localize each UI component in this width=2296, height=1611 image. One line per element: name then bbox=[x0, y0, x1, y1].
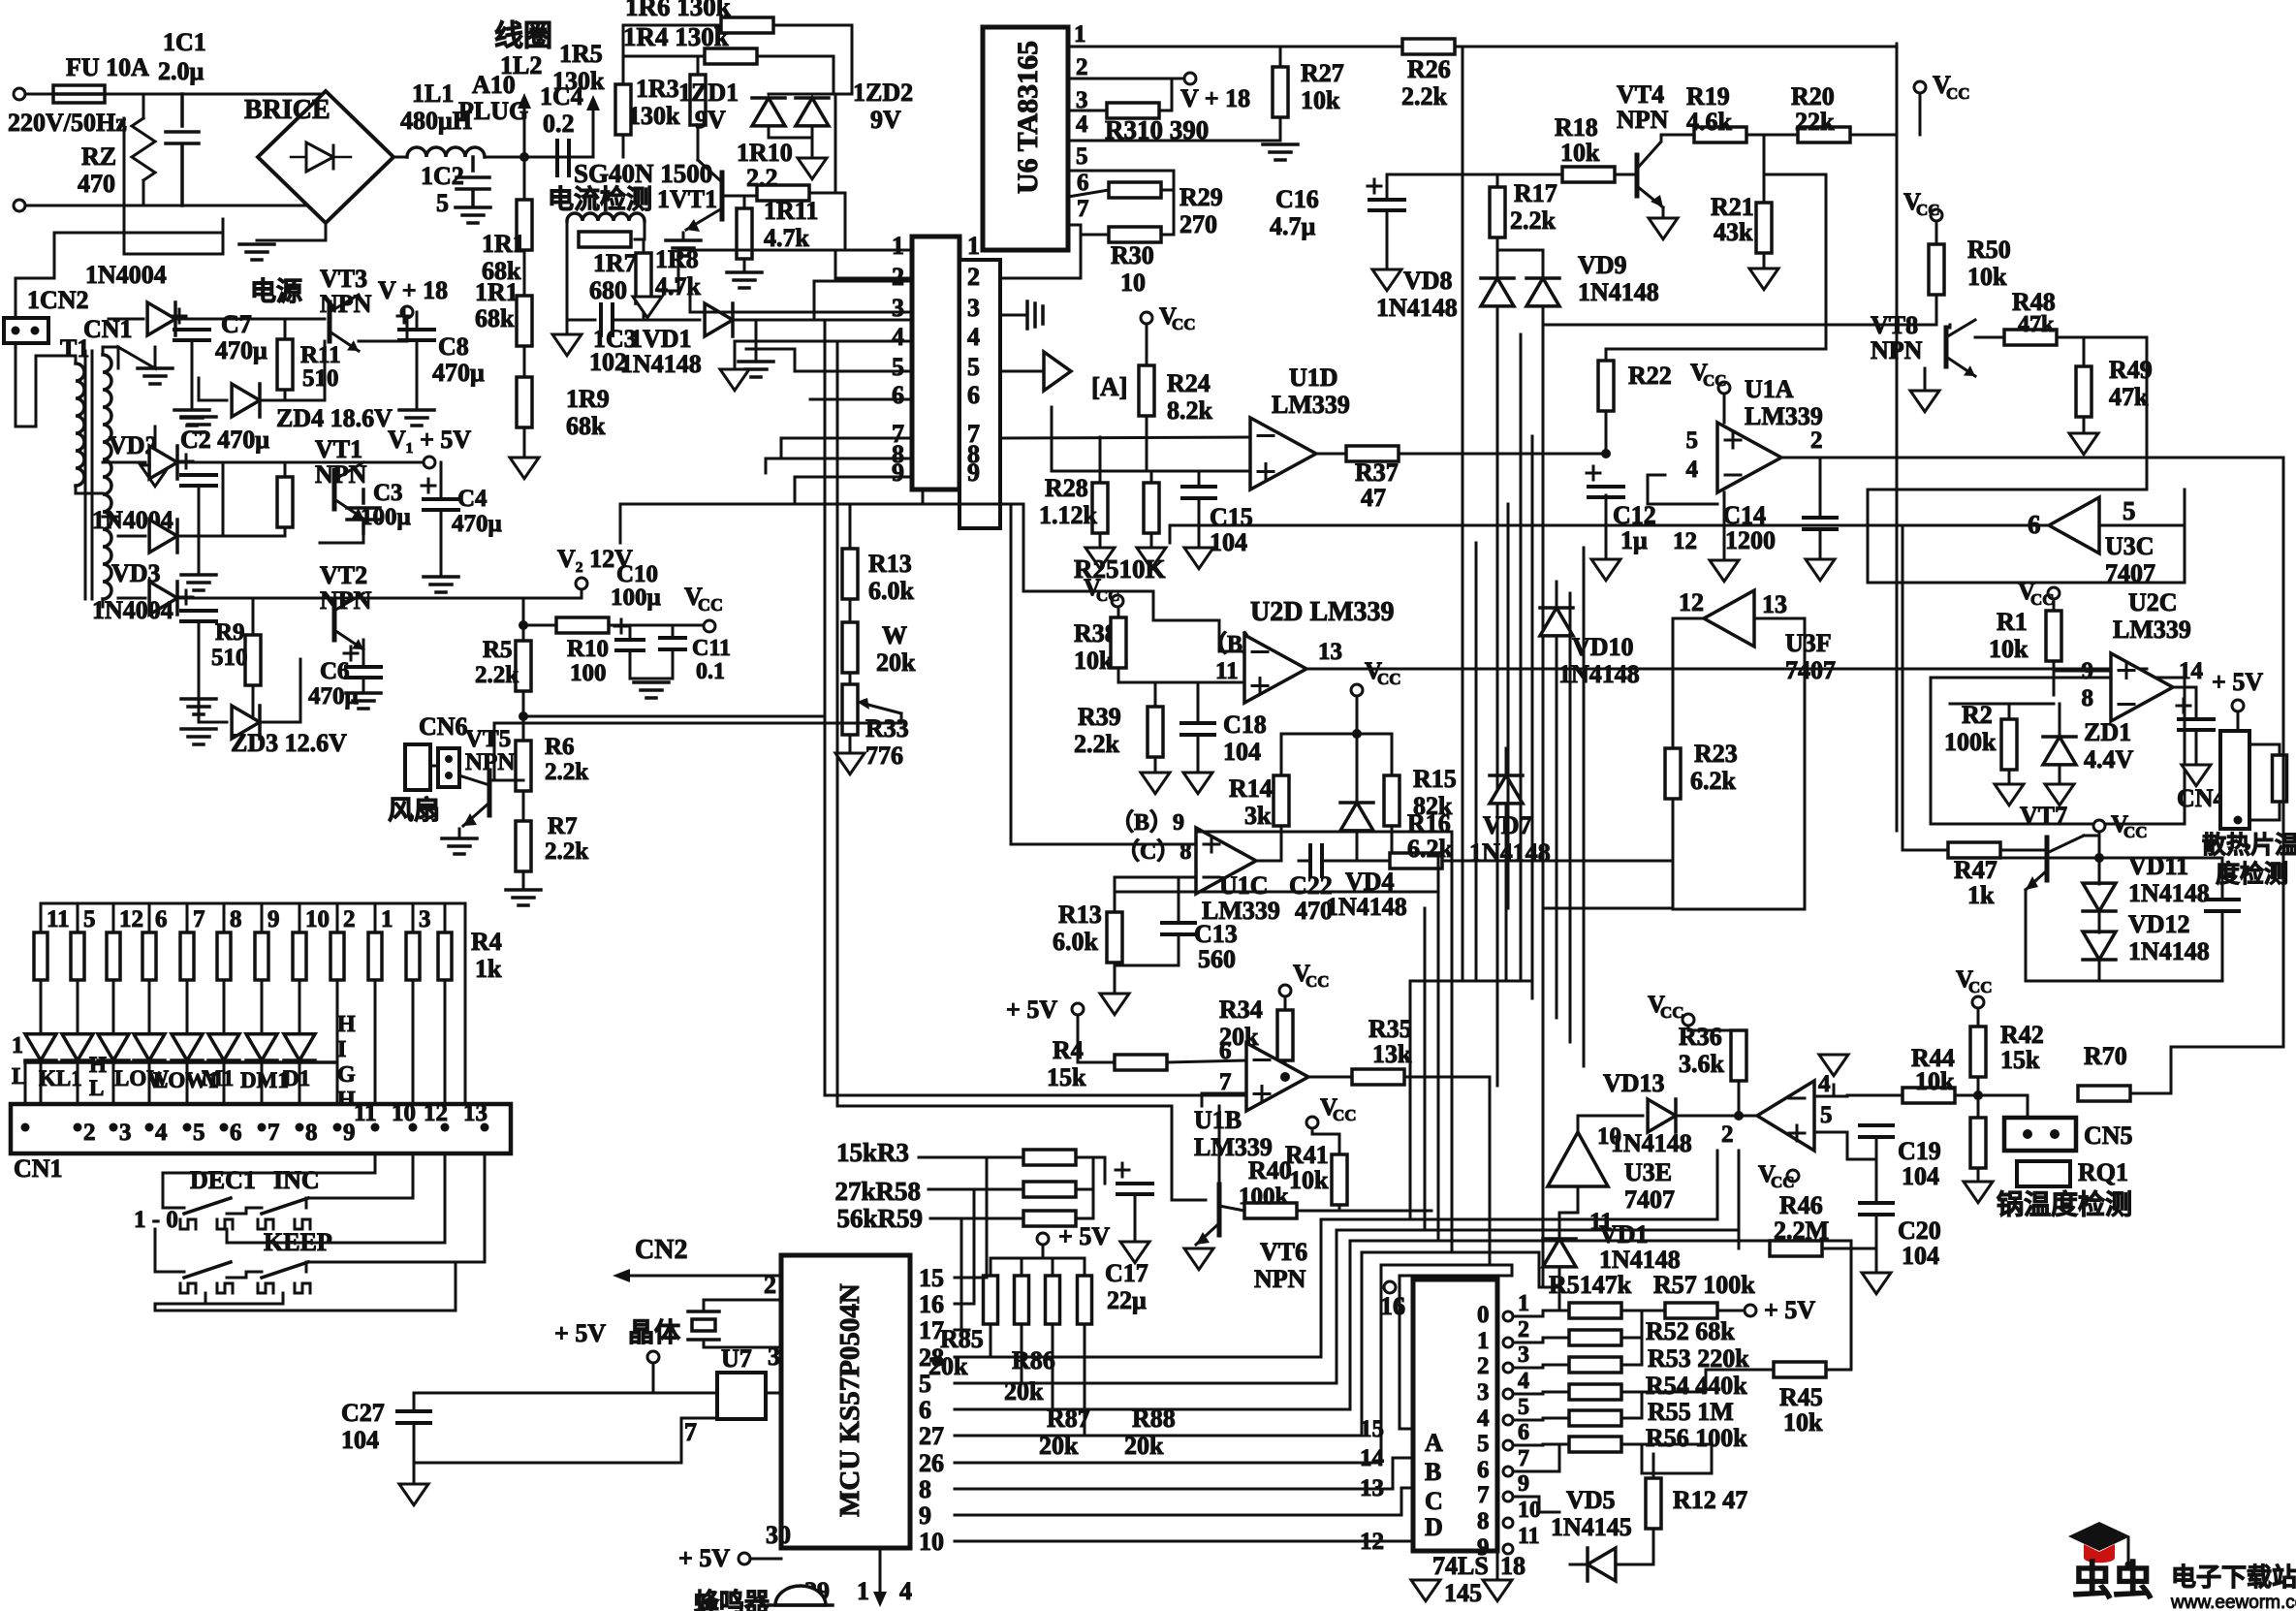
svg-text:VD13: VD13 bbox=[1603, 1069, 1665, 1097]
svg-text:R55 1M: R55 1M bbox=[1648, 1398, 1734, 1426]
svg-text:10k: 10k bbox=[1074, 647, 1114, 675]
resistor R47 bbox=[1948, 842, 2000, 858]
wire bbox=[1076, 1157, 1093, 1189]
svg-text:INC: INC bbox=[273, 1166, 320, 1194]
wire bbox=[489, 713, 901, 780]
wire bbox=[1935, 295, 1938, 325]
wire bbox=[1052, 1324, 1054, 1347]
op-amp U1B LM339 bbox=[1246, 1043, 1308, 1111]
wire bbox=[1896, 44, 1899, 135]
svg-text:C22: C22 bbox=[1289, 871, 1333, 900]
resistor R57 bbox=[1665, 1303, 1717, 1318]
svg-text:U3E: U3E bbox=[1624, 1158, 1672, 1186]
74ls out pin 9 bbox=[1503, 1492, 1513, 1501]
ground R21 bbox=[1749, 268, 1778, 290]
wire bbox=[261, 1060, 264, 1104]
wire bbox=[262, 659, 300, 722]
ground 74ls a bbox=[1411, 1580, 1440, 1601]
wire bbox=[1919, 93, 1922, 135]
wire bbox=[955, 1408, 969, 1411]
svg-text:www.eeworm.com: www.eeworm.com bbox=[2170, 1593, 2296, 1611]
arrow up A10 bbox=[592, 107, 595, 157]
resistor R48 bbox=[2004, 330, 2057, 345]
wire bbox=[1520, 334, 1523, 981]
ground 1VD1 bbox=[739, 362, 773, 377]
resistor R1 bbox=[2046, 611, 2061, 661]
wire bbox=[1559, 1186, 1578, 1213]
svg-text:R15: R15 bbox=[1413, 765, 1457, 793]
wire bbox=[257, 223, 326, 240]
wire bbox=[1000, 314, 1027, 317]
wire bbox=[769, 126, 812, 138]
capacitor C2 bbox=[181, 475, 216, 486]
svg-text:C15: C15 bbox=[1210, 503, 1253, 531]
resistor R310 bbox=[1107, 103, 1159, 118]
CN1 pin dot 4 bbox=[145, 1123, 154, 1132]
op-amp U1D LM339 bbox=[1250, 418, 1316, 490]
wire bbox=[77, 980, 79, 1016]
capacitor C27 bbox=[397, 1411, 430, 1423]
capacitor C19 bbox=[1860, 1125, 1893, 1137]
wire bbox=[77, 1060, 79, 1104]
wire bbox=[814, 281, 912, 320]
CN1 pin dot 7 bbox=[258, 1123, 267, 1132]
svg-text:9V: 9V bbox=[695, 106, 726, 134]
wire bbox=[1868, 458, 2147, 490]
svg-text:20k: 20k bbox=[1004, 1377, 1044, 1406]
svg-text:1C2: 1C2 bbox=[421, 162, 464, 190]
capacitor C2b bbox=[181, 611, 216, 621]
wire bbox=[849, 673, 852, 684]
diode VD10 bbox=[1540, 608, 1573, 636]
wire bbox=[1068, 140, 1280, 142]
svg-text:ZD4 18.6V: ZD4 18.6V bbox=[276, 404, 393, 432]
wire bbox=[1399, 453, 1606, 456]
svg-text:LM339: LM339 bbox=[2113, 616, 2191, 644]
wire bbox=[969, 1382, 1337, 1385]
wire bbox=[1924, 368, 1927, 388]
svg-text:3: 3 bbox=[967, 294, 980, 322]
svg-text:1N4148: 1N4148 bbox=[1326, 893, 1407, 921]
wire bbox=[1197, 682, 1200, 723]
ground VT6 bbox=[1184, 1248, 1213, 1270]
svg-text:电流检测: 电流检测 bbox=[548, 184, 652, 214]
capacitor C17 bbox=[1117, 1184, 1152, 1194]
ground R7 bbox=[506, 890, 541, 905]
transistor VT2 bbox=[332, 601, 337, 640]
svg-text:4: 4 bbox=[892, 323, 904, 351]
svg-text:VT8: VT8 bbox=[1871, 311, 1918, 339]
wire bbox=[1084, 1324, 1086, 1347]
wire bbox=[834, 94, 837, 193]
wire bbox=[2027, 1095, 2029, 1118]
wire bbox=[1621, 1311, 1642, 1338]
wire bbox=[769, 93, 852, 96]
inductor 1L1 bbox=[407, 147, 485, 157]
wire bbox=[1819, 529, 1822, 556]
wire bbox=[566, 221, 569, 239]
svg-text:13: 13 bbox=[463, 1100, 488, 1126]
svg-text:8.2k: 8.2k bbox=[1167, 396, 1213, 425]
wire bbox=[40, 980, 43, 1016]
resistor R52 bbox=[1569, 1330, 1621, 1345]
diode VD8 bbox=[1481, 278, 1514, 306]
wire bbox=[672, 649, 675, 679]
resistor R41 bbox=[1332, 1154, 1347, 1205]
svg-text:10k: 10k bbox=[1289, 1166, 1329, 1194]
wire bbox=[1505, 748, 1508, 775]
wire bbox=[635, 238, 644, 241]
74ls out pin 10 bbox=[1503, 1518, 1513, 1528]
svg-text:C16: C16 bbox=[1275, 185, 1319, 213]
wire bbox=[252, 685, 255, 722]
svg-text:5: 5 bbox=[2123, 496, 2136, 525]
CN1 pin dot 2 bbox=[74, 1123, 82, 1132]
CN1 pin dot 9 bbox=[333, 1123, 342, 1132]
resistor R15 bbox=[1384, 775, 1400, 826]
wire bbox=[1161, 234, 1174, 237]
wire bbox=[77, 1016, 79, 1031]
svg-text:7: 7 bbox=[267, 1120, 280, 1146]
wire bbox=[619, 504, 622, 543]
svg-text:28: 28 bbox=[919, 1343, 944, 1372]
terminal Vcc R34 bbox=[1279, 985, 1291, 996]
ground T1 bbox=[138, 368, 173, 384]
CN1 pin dot 1 bbox=[21, 1123, 30, 1132]
svg-text:R86: R86 bbox=[1012, 1346, 1055, 1374]
wire bbox=[105, 93, 326, 96]
terminal Vcc R1 bbox=[2048, 587, 2060, 599]
wire bbox=[1146, 416, 1148, 471]
svg-text:NPN: NPN bbox=[320, 586, 372, 615]
wire bbox=[1621, 1444, 1712, 1473]
wire bbox=[1875, 1215, 1878, 1270]
wire bbox=[1381, 1265, 1512, 1276]
transformer T1 core bbox=[85, 351, 92, 599]
wire bbox=[1336, 1230, 1338, 1383]
wire bbox=[969, 1157, 1023, 1278]
wire bbox=[1042, 1245, 1045, 1258]
wire bbox=[969, 1462, 1381, 1465]
ground VT5 bbox=[442, 838, 477, 854]
wire bbox=[630, 650, 673, 679]
wire bbox=[299, 1016, 301, 1031]
ground C8 bbox=[399, 410, 434, 426]
svg-text:CC: CC bbox=[1377, 670, 1401, 688]
svg-text:15k: 15k bbox=[1047, 1063, 1086, 1091]
wire bbox=[2098, 858, 2101, 884]
svg-text:0.1: 0.1 bbox=[696, 659, 725, 684]
LED 5 bbox=[172, 1034, 203, 1060]
ground C4 bbox=[424, 577, 458, 592]
wire bbox=[681, 1417, 717, 1420]
svg-text:W: W bbox=[882, 621, 907, 649]
wire bbox=[1621, 1338, 1642, 1365]
wire bbox=[148, 903, 151, 932]
wire bbox=[1850, 134, 1897, 137]
wire bbox=[393, 156, 407, 159]
R33 wiper arrow bbox=[865, 704, 901, 713]
wire bbox=[1256, 858, 1281, 861]
ground VT8 bbox=[1910, 391, 1939, 412]
svg-text:20k: 20k bbox=[876, 648, 916, 677]
resistor 1R8 bbox=[636, 253, 651, 303]
diode VD11 bbox=[2083, 883, 2116, 911]
wire bbox=[919, 1156, 1023, 1159]
svg-text:1N4004: 1N4004 bbox=[92, 596, 173, 624]
wire bbox=[622, 58, 625, 84]
resistor R6 bbox=[516, 741, 531, 791]
wire bbox=[1198, 498, 1201, 545]
wire bbox=[1068, 110, 1107, 112]
wire bbox=[54, 232, 223, 235]
LED 1 bbox=[25, 1034, 56, 1060]
diode VD3 bbox=[149, 582, 177, 615]
svg-text:RQ1: RQ1 bbox=[2078, 1158, 2128, 1186]
wire bbox=[1977, 1168, 1980, 1179]
svg-text:1R5: 1R5 bbox=[559, 40, 603, 68]
wire bbox=[1115, 853, 1438, 892]
resistor R51 bbox=[1569, 1303, 1621, 1318]
svg-text:C4: C4 bbox=[457, 486, 488, 512]
ground R33 bbox=[835, 753, 865, 774]
resistor R4 element 2 bbox=[71, 932, 84, 980]
svg-text:2: 2 bbox=[1518, 1317, 1529, 1342]
svg-text:6.2k: 6.2k bbox=[1690, 767, 1737, 795]
wire bbox=[1052, 470, 1250, 473]
resistor R2 bbox=[2001, 719, 2017, 770]
svg-text:8: 8 bbox=[305, 1120, 318, 1146]
svg-text:17: 17 bbox=[919, 1316, 944, 1344]
resistor R4 element 5 bbox=[180, 932, 194, 980]
wire bbox=[1822, 1248, 1876, 1250]
resistor 1R1a bbox=[517, 200, 532, 250]
svg-text:10: 10 bbox=[919, 1528, 944, 1556]
svg-text:15k: 15k bbox=[2000, 1046, 2040, 1074]
svg-text:[A]: [A] bbox=[1091, 372, 1127, 401]
terminal Vcc main bbox=[704, 620, 715, 632]
wire bbox=[2195, 687, 2198, 719]
wire bbox=[1543, 907, 1673, 910]
wire bbox=[41, 902, 465, 905]
resistor 1R4 bbox=[705, 48, 757, 64]
resistor R59 bbox=[1023, 1211, 1076, 1226]
wire bbox=[735, 319, 911, 322]
ground R27 bbox=[1263, 144, 1298, 160]
diode VD13 bbox=[1648, 1099, 1676, 1132]
svg-text:4: 4 bbox=[155, 1120, 168, 1146]
transistor VT1 bbox=[332, 470, 337, 509]
wire bbox=[1150, 471, 1153, 483]
wire bbox=[1763, 135, 1766, 203]
ground VT4 bbox=[1649, 218, 1678, 239]
svg-text:R26: R26 bbox=[1407, 55, 1451, 83]
wire bbox=[1903, 831, 1948, 850]
wire bbox=[955, 1303, 969, 1306]
resistor R37 bbox=[1346, 446, 1399, 461]
wire bbox=[1154, 682, 1157, 707]
svg-text:13: 13 bbox=[1318, 639, 1342, 665]
svg-text:10k: 10k bbox=[1989, 635, 2029, 663]
wire bbox=[620, 503, 795, 506]
svg-text:R35: R35 bbox=[1368, 1015, 1412, 1043]
svg-text:270: 270 bbox=[1179, 210, 1217, 238]
wire bbox=[414, 1392, 653, 1395]
resistor R4 element 7 bbox=[255, 932, 268, 980]
LED 4 bbox=[134, 1034, 165, 1060]
resistor R4 15k bbox=[1115, 1055, 1167, 1070]
svg-text:7407: 7407 bbox=[1624, 1185, 1675, 1214]
svg-text:CC: CC bbox=[1771, 1173, 1795, 1191]
svg-text:1ZD2: 1ZD2 bbox=[853, 79, 913, 107]
wire bbox=[40, 1060, 43, 1104]
wire bbox=[2098, 832, 2101, 858]
svg-text:1R6 130k: 1R6 130k bbox=[625, 0, 731, 21]
svg-text:130k: 130k bbox=[552, 67, 605, 95]
wire bbox=[643, 303, 645, 320]
svg-text:BRICE: BRICE bbox=[244, 95, 330, 125]
wire bbox=[440, 462, 443, 499]
wire bbox=[990, 1258, 992, 1276]
svg-text:3.6k: 3.6k bbox=[1679, 1050, 1725, 1078]
potentiometer W 20k bbox=[842, 622, 858, 673]
resistor 1R9 bbox=[517, 377, 532, 427]
resistor R9 bbox=[245, 635, 261, 685]
wire bbox=[1068, 46, 1895, 48]
svg-text:U2C: U2C bbox=[2128, 588, 2178, 616]
wire bbox=[1556, 582, 1558, 608]
svg-text:C19: C19 bbox=[1898, 1137, 1941, 1165]
diode 1VD1 bbox=[705, 303, 733, 336]
capacitor C4 bbox=[424, 499, 458, 510]
resistor R53 bbox=[1569, 1357, 1621, 1373]
wire bbox=[1154, 757, 1157, 770]
resistor R20 bbox=[1798, 127, 1850, 142]
wire bbox=[1280, 826, 1283, 858]
wire bbox=[795, 503, 1023, 506]
svg-text:2: 2 bbox=[1076, 54, 1088, 80]
wire bbox=[1514, 1444, 1559, 1471]
svg-text:22k: 22k bbox=[1795, 108, 1835, 136]
ground C16 bbox=[1372, 269, 1401, 291]
svg-text:CC: CC bbox=[2123, 823, 2148, 841]
wire bbox=[1356, 734, 1359, 803]
svg-text:6: 6 bbox=[155, 906, 168, 932]
svg-text:4: 4 bbox=[1818, 1071, 1831, 1097]
wire bbox=[682, 233, 685, 238]
ground bridge bbox=[239, 244, 274, 260]
wire bbox=[1977, 1008, 1980, 1027]
resistor R45 bbox=[1774, 1362, 1826, 1377]
transistor 1VT1 bbox=[720, 173, 725, 219]
wire bbox=[1170, 525, 2049, 543]
terminal AC N bbox=[14, 200, 25, 211]
op-amp U2C LM339 bbox=[2111, 653, 2173, 721]
resistor R38 bbox=[1111, 617, 1126, 668]
terminal +5V CN4 bbox=[2232, 700, 2244, 711]
svg-text:74LS: 74LS bbox=[1432, 1552, 1489, 1580]
ground 1VT1 bbox=[666, 240, 701, 256]
svg-text:10: 10 bbox=[1120, 268, 1146, 297]
svg-text:5: 5 bbox=[436, 189, 449, 217]
wire bbox=[2053, 661, 2056, 695]
svg-text:2: 2 bbox=[1477, 1353, 1490, 1379]
wire bbox=[261, 1016, 264, 1031]
terminal 74ls 16 bbox=[1384, 1281, 1396, 1293]
svg-text:DEC1: DEC1 bbox=[190, 1166, 256, 1194]
svg-text:R13: R13 bbox=[868, 550, 912, 578]
svg-text:R57 100k: R57 100k bbox=[1653, 1271, 1755, 1299]
svg-text:15: 15 bbox=[919, 1264, 944, 1292]
current transformer coil bbox=[567, 213, 645, 221]
svg-text:VT6: VT6 bbox=[1260, 1238, 1307, 1266]
svg-text:11: 11 bbox=[1518, 1524, 1540, 1549]
svg-text:4.6k: 4.6k bbox=[1686, 108, 1733, 136]
svg-text:1R1: 1R1 bbox=[482, 230, 525, 258]
wire bbox=[2084, 836, 2099, 858]
svg-text:6: 6 bbox=[1518, 1420, 1529, 1445]
wire bbox=[1387, 174, 1562, 176]
svg-text:R47: R47 bbox=[1954, 856, 1997, 884]
wire bbox=[2083, 337, 2086, 366]
wire bbox=[969, 1356, 1321, 1359]
wire bbox=[1514, 1497, 1559, 1512]
wire bbox=[186, 980, 189, 1016]
wire bbox=[969, 1488, 1413, 1515]
terminal Vcc R41 bbox=[1306, 1117, 1318, 1128]
svg-text:1: 1 bbox=[1074, 21, 1086, 47]
svg-text:CN6: CN6 bbox=[419, 712, 468, 741]
IC U7 bbox=[717, 1373, 766, 1419]
svg-text:C8: C8 bbox=[438, 332, 469, 361]
resistor R34 bbox=[1277, 1010, 1293, 1060]
wire bbox=[1558, 1213, 1561, 1239]
wire bbox=[362, 640, 365, 667]
svg-text:U6 TA83165: U6 TA83165 bbox=[1012, 41, 1044, 194]
svg-text:8: 8 bbox=[919, 1475, 931, 1503]
wire bbox=[990, 1324, 992, 1357]
svg-text:R12 47: R12 47 bbox=[1673, 1486, 1747, 1514]
wire bbox=[1496, 237, 1499, 250]
wire bbox=[746, 349, 912, 371]
svg-text:CC: CC bbox=[1968, 978, 1993, 996]
svg-text:0.2: 0.2 bbox=[543, 110, 575, 138]
svg-text:12: 12 bbox=[119, 906, 143, 932]
svg-text:100: 100 bbox=[570, 660, 607, 686]
capacitor 1C4 bbox=[557, 141, 569, 175]
CN6 pin1 bbox=[445, 755, 453, 763]
wire bbox=[261, 903, 264, 932]
svg-text:2.2k: 2.2k bbox=[1401, 82, 1448, 111]
wire bbox=[1279, 47, 1282, 67]
svg-text:1N4148: 1N4148 bbox=[2128, 937, 2210, 965]
svg-text:C27: C27 bbox=[341, 1399, 385, 1427]
svg-text:1: 1 bbox=[381, 906, 393, 932]
wire bbox=[1754, 618, 1805, 909]
wire bbox=[837, 1106, 1206, 1200]
wire bbox=[955, 1329, 969, 1332]
svg-text:R2: R2 bbox=[1962, 701, 1993, 729]
svg-text:1VD1: 1VD1 bbox=[630, 325, 692, 353]
diode VD7 bbox=[1490, 775, 1523, 804]
svg-text:3k: 3k bbox=[1244, 802, 1272, 830]
zener 1ZD2 bbox=[796, 98, 829, 126]
buffer U3E 7407 bbox=[1548, 1132, 1608, 1186]
capacitor C18 bbox=[1181, 723, 1214, 735]
resistor 1R3 bbox=[690, 75, 706, 125]
wire bbox=[112, 1060, 115, 1104]
svg-text:L: L bbox=[12, 1064, 27, 1090]
